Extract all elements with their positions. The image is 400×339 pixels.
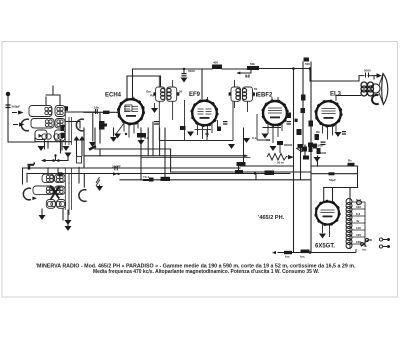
svg-text:'465/2 PH.: '465/2 PH. — [258, 215, 285, 221]
svg-text:Pd: Pd — [150, 94, 154, 98]
svg-text:1500: 1500 — [316, 144, 323, 148]
svg-text:25000: 25000 — [318, 151, 327, 155]
svg-text:6X5GT.: 6X5GT. — [315, 244, 335, 250]
svg-text:50: 50 — [254, 87, 258, 91]
svg-text:EF9: EF9 — [189, 92, 201, 98]
svg-text:T0.1: T0.1 — [143, 175, 149, 179]
svg-text:25: 25 — [246, 75, 250, 79]
svg-text:Rk: Rk — [316, 130, 320, 134]
svg-text:500: 500 — [305, 62, 310, 66]
svg-text:50μF: 50μF — [329, 178, 336, 182]
svg-text:400: 400 — [213, 61, 218, 65]
svg-text:100PF: 100PF — [112, 165, 121, 169]
svg-text:fus.: fus. — [285, 255, 291, 259]
svg-text:10k: 10k — [94, 106, 99, 110]
svg-text:50k: 50k — [250, 62, 255, 66]
svg-text:Media frequenza 470 kc/s. Alto: Media frequenza 470 kc/s. Altoparlante m… — [93, 269, 319, 275]
svg-text:125: 125 — [356, 233, 361, 237]
svg-text:110: 110 — [356, 226, 361, 230]
svg-text:0,5: 0,5 — [266, 138, 271, 142]
svg-text:ECH4: ECH4 — [105, 93, 122, 99]
svg-text:50: 50 — [179, 90, 183, 94]
svg-text:0,1: 0,1 — [144, 136, 149, 140]
svg-text:int.: int. — [362, 248, 367, 252]
svg-text:0,1: 0,1 — [252, 136, 257, 140]
svg-text:fus.: fus. — [300, 255, 306, 259]
svg-text:30000: 30000 — [284, 143, 293, 147]
svg-text:4μF: 4μF — [356, 202, 362, 206]
svg-text:200pF: 200pF — [12, 105, 21, 109]
svg-text:5000: 5000 — [188, 69, 195, 73]
svg-text:5000: 5000 — [364, 69, 371, 73]
svg-text:EBF2: EBF2 — [257, 93, 273, 99]
svg-text:Rs: Rs — [348, 159, 352, 163]
svg-text:4v: 4v — [356, 219, 360, 223]
svg-text:0,1: 0,1 — [205, 132, 210, 136]
svg-text:50 m: 50 m — [277, 161, 284, 165]
svg-text:6,3: 6,3 — [356, 212, 361, 216]
